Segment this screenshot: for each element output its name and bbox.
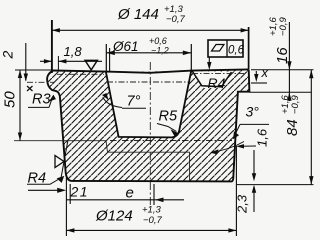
svg-text:2,3: 2,3	[235, 194, 250, 214]
svg-text:−0,7: −0,7	[166, 14, 185, 25]
outline: right wall + step + right edge	[232, 69, 250, 181]
outline: top surface	[54, 69, 249, 72]
svg-text:x: x	[261, 65, 269, 80]
svg-text:−0,7: −0,7	[143, 215, 162, 226]
cavity outline	[106, 71, 191, 137]
svg-text:+1,3: +1,3	[142, 205, 161, 216]
dim 84 right	[237, 184, 314, 186]
flatness tolerance frame	[208, 40, 243, 57]
outline: left edge bump R3 and wall	[47, 71, 71, 181]
allowance dash-dot line, across cavity	[107, 81, 188, 83]
x-step line right	[251, 82, 267, 84]
outline: bottom edge	[72, 180, 232, 183]
dims 21 / e row	[28, 189, 59, 191]
allowance dash-dot line, right top face	[192, 73, 246, 75]
svg-text:+0,6: +0,6	[149, 36, 167, 46]
svg-text:Ø61: Ø61	[112, 39, 139, 54]
svg-text:1,6: 1,6	[255, 128, 270, 147]
svg-text:16: 16	[274, 47, 291, 64]
machined contour thin line	[14, 141, 190, 181]
centerline axis	[149, 62, 151, 205]
dim 16 right	[251, 69, 314, 71]
svg-text:1,8: 1,8	[64, 44, 83, 59]
groove R4 notch outline	[204, 74, 224, 88]
dim Ø124	[65, 178, 67, 236]
svg-text:R3: R3	[32, 92, 51, 108]
svg-text:R5: R5	[159, 109, 178, 125]
dim 2	[25, 43, 27, 81]
svg-text:Ø124: Ø124	[95, 208, 133, 225]
section body (hatched area with cavity and groove holes)	[47, 69, 249, 181]
svg-text:21: 21	[70, 184, 90, 200]
dim x	[255, 71, 257, 79]
svg-text:50: 50	[2, 91, 19, 108]
dim 50	[15, 69, 54, 71]
svg-text:R4: R4	[208, 75, 226, 91]
web bottom dash-dot line	[110, 140, 232, 142]
allowance dash-dot line, left rim	[27, 81, 54, 83]
svg-text:7°: 7°	[127, 94, 141, 110]
dim Ø144	[51, 20, 53, 73]
svg-text:Ø 144: Ø 144	[117, 6, 159, 23]
svg-text:−0,9: −0,9	[290, 95, 301, 114]
dim Ø61	[105, 44, 107, 72]
x mark left	[27, 86, 33, 91]
svg-text:0,6: 0,6	[228, 45, 245, 57]
svg-text:3°: 3°	[246, 104, 260, 120]
svg-text:−0,9: −0,9	[278, 17, 289, 36]
allowance dash-dot line, left top face	[57, 73, 104, 75]
svg-text:e: e	[126, 185, 134, 202]
dim 1,8	[57, 56, 59, 71]
open triangle marker left wall	[55, 156, 64, 168]
surface triangle mark	[85, 60, 97, 70]
3deg arc	[211, 142, 244, 153]
svg-text:84: 84	[284, 119, 301, 136]
dim 2,3	[253, 150, 255, 179]
svg-text:−1,2: −1,2	[151, 46, 169, 56]
svg-text:2: 2	[0, 51, 16, 60]
